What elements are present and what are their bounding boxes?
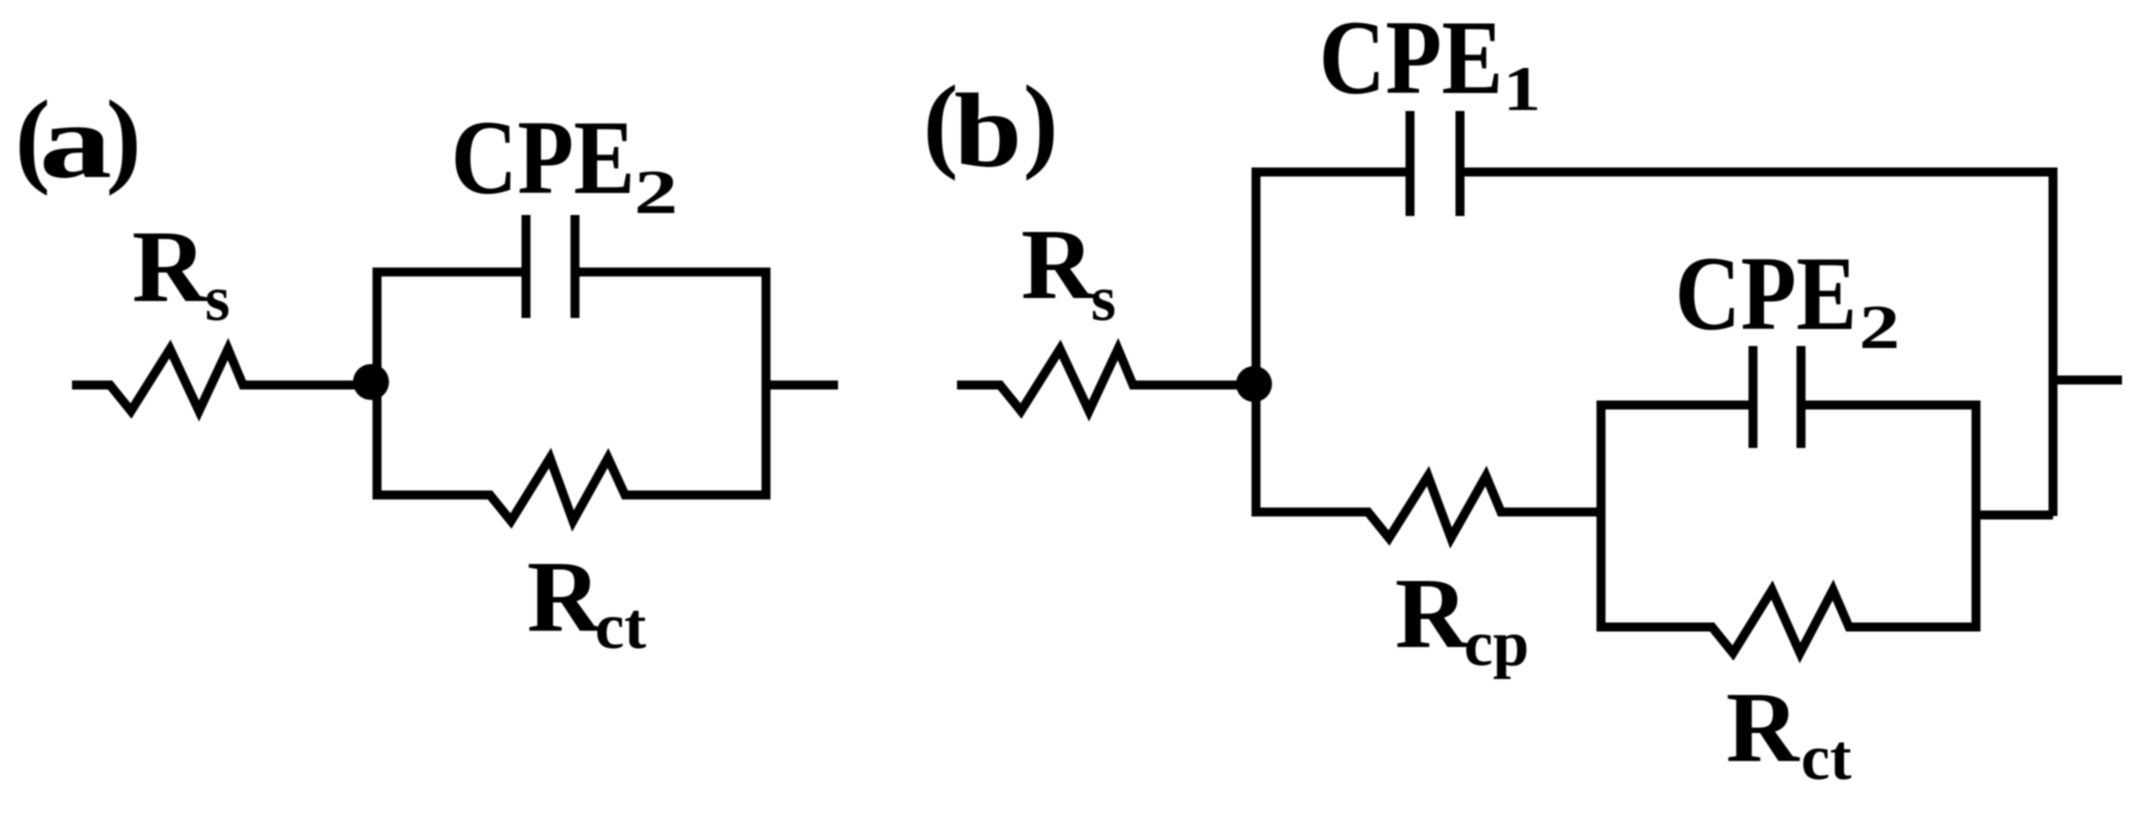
svg-text:s: s xyxy=(205,263,230,335)
svg-text:R: R xyxy=(132,210,208,324)
svg-text:R: R xyxy=(1726,671,1800,783)
svg-text:): ) xyxy=(106,79,141,196)
svg-text:ct: ct xyxy=(595,590,646,663)
svg-text:R: R xyxy=(1021,208,1095,320)
svg-text:CPE: CPE xyxy=(1675,235,1857,352)
svg-text:R: R xyxy=(1395,557,1469,669)
svg-text:CPE: CPE xyxy=(1319,0,1503,116)
svg-text:): ) xyxy=(1023,64,1058,181)
svg-text:R: R xyxy=(527,541,602,654)
svg-text:CPE: CPE xyxy=(451,99,635,216)
svg-text:ct: ct xyxy=(1801,722,1852,794)
svg-text:1: 1 xyxy=(1503,54,1541,124)
svg-text:s: s xyxy=(1091,263,1116,335)
svg-text:a: a xyxy=(39,83,112,200)
svg-text:2: 2 xyxy=(1859,294,1900,362)
svg-text:b: b xyxy=(954,72,1022,189)
svg-text:2: 2 xyxy=(634,159,678,227)
svg-text:cp: cp xyxy=(1464,608,1529,680)
